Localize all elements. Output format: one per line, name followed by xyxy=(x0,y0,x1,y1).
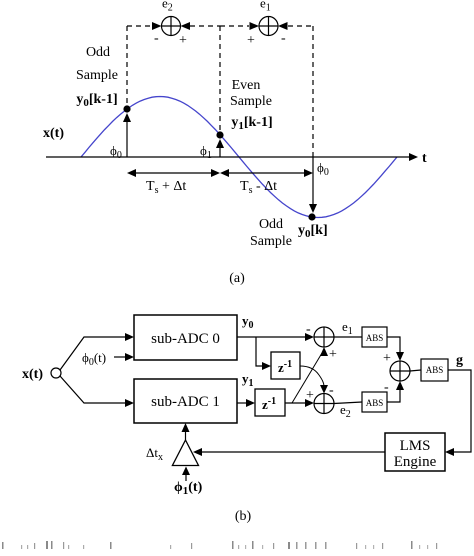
svg-text:sub-ADC 0: sub-ADC 0 xyxy=(151,331,220,347)
svg-text:-: - xyxy=(329,383,334,398)
svg-text:Sample: Sample xyxy=(230,94,272,109)
svg-text:y0[k-1]: y0[k-1] xyxy=(76,92,117,109)
svg-text:Sample: Sample xyxy=(76,68,118,83)
svg-text:-: - xyxy=(281,31,286,46)
svg-text:ABS: ABS xyxy=(366,398,384,408)
svg-text:Even: Even xyxy=(232,78,261,93)
svg-text:Ts + Δt: Ts + Δt xyxy=(146,179,186,196)
svg-text:x(t): x(t) xyxy=(43,126,64,141)
svg-text:+: + xyxy=(329,347,337,362)
svg-text:y1[k-1]: y1[k-1] xyxy=(231,115,272,132)
svg-text:-: - xyxy=(154,31,159,46)
svg-text:+: + xyxy=(179,33,187,48)
svg-text:x(t): x(t) xyxy=(22,367,43,382)
svg-text:Odd: Odd xyxy=(259,217,283,232)
svg-text:ABS: ABS xyxy=(366,333,384,343)
svg-text:ABS: ABS xyxy=(426,365,444,375)
svg-text:+: + xyxy=(383,351,391,366)
svg-text:Engine: Engine xyxy=(394,454,437,470)
svg-text:Sample: Sample xyxy=(250,234,292,249)
svg-text:LMS: LMS xyxy=(400,438,431,454)
svg-text:ϕ1(t): ϕ1(t) xyxy=(174,480,203,497)
svg-text:sub-ADC 1: sub-ADC 1 xyxy=(151,394,220,410)
svg-text:+: + xyxy=(247,33,255,48)
svg-text:y0[k]: y0[k] xyxy=(298,223,328,240)
svg-text:+: + xyxy=(306,388,314,403)
svg-text:Ts - Δt: Ts - Δt xyxy=(240,179,277,196)
svg-text:g: g xyxy=(456,353,463,368)
svg-text:-: - xyxy=(306,322,311,337)
svg-text:(b): (b) xyxy=(235,509,252,524)
svg-text:t: t xyxy=(422,151,427,166)
svg-text:(a): (a) xyxy=(229,271,245,286)
svg-text:Odd: Odd xyxy=(86,45,110,60)
